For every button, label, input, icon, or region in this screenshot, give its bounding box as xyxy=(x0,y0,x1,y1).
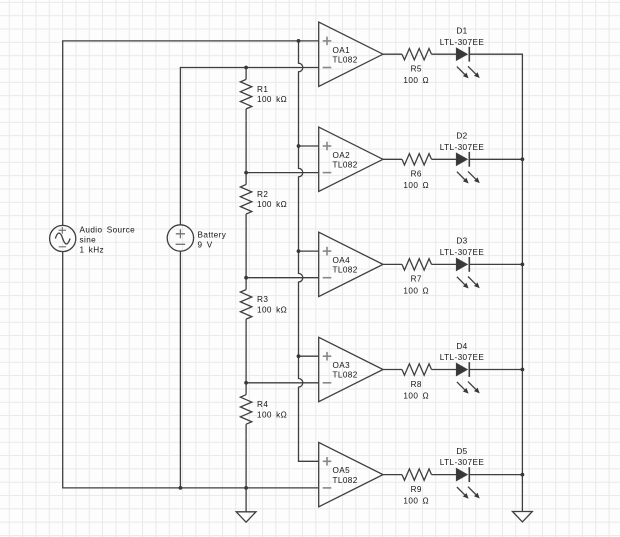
wire: R8 to D4 anode xyxy=(432,369,457,371)
wire: battery negative to ground return xyxy=(179,251,181,488)
svg-text:TL082: TL082 xyxy=(333,371,358,380)
wire: OA3 output xyxy=(383,369,402,371)
svg-text:LTL-307EE: LTL-307EE xyxy=(440,458,485,467)
svg-text:OA1: OA1 xyxy=(333,46,351,55)
svg-text:LTL-307EE: LTL-307EE xyxy=(440,143,485,152)
wire: ladder segment below R4 xyxy=(245,436,247,488)
svg-text:OA5: OA5 xyxy=(333,466,351,475)
resistor R4 (100 kΩ) xyxy=(240,383,287,436)
wire: OA3 noninverting input stub xyxy=(299,355,319,357)
svg-text:R3: R3 xyxy=(257,295,268,304)
svg-text:D1: D1 xyxy=(456,27,467,36)
svg-text:LTL-307EE: LTL-307EE xyxy=(440,248,485,257)
junction: ladder tap R1-R2 xyxy=(244,171,248,175)
wire: ladder tap to OA3 inverting input xyxy=(246,382,319,384)
junction: ground bus / D4 cathode xyxy=(521,368,525,372)
svg-text:TL082: TL082 xyxy=(333,161,358,170)
svg-text:OA3: OA3 xyxy=(333,361,351,370)
battery V2: 9 V xyxy=(167,225,227,251)
wire: OA1 output xyxy=(383,53,402,55)
svg-text:100 kΩ: 100 kΩ xyxy=(257,305,287,314)
svg-text:LTL-307EE: LTL-307EE xyxy=(440,353,485,362)
ground (LED return) xyxy=(513,512,533,522)
wire: audio source top to OA1 noninverting input xyxy=(63,41,319,226)
svg-text:1 kHz: 1 kHz xyxy=(80,246,105,255)
svg-text:100 kΩ: 100 kΩ xyxy=(257,200,287,209)
junction: ladder tap R2-R3 xyxy=(244,276,248,280)
wire: D4 cathode to ground bus xyxy=(469,369,522,371)
wire: signal bus to noninverting inputs xyxy=(299,41,319,461)
resistor R2 (100 kΩ) xyxy=(240,173,287,226)
svg-text:100 Ω: 100 Ω xyxy=(403,76,429,85)
svg-text:OA4: OA4 xyxy=(333,256,351,265)
op-amp OA5 (TL082) xyxy=(319,442,383,506)
wire: ladder tap to OA4 inverting input xyxy=(246,277,319,279)
svg-text:TL082: TL082 xyxy=(333,476,358,485)
junction: signal bus / OA4 noninverting input xyxy=(297,249,301,253)
svg-text:D4: D4 xyxy=(456,342,467,351)
wire: D1 cathode and LED ground bus xyxy=(469,54,522,511)
svg-text:100 Ω: 100 Ω xyxy=(403,286,429,295)
junction: ladder bottom / ground return xyxy=(244,486,248,490)
wire: OA4 noninverting input stub xyxy=(299,250,319,252)
wire: OA2 noninverting input stub xyxy=(299,145,319,147)
junction: battery negative / ground return xyxy=(179,486,183,490)
svg-text:Battery: Battery xyxy=(198,230,227,239)
svg-text:100 Ω: 100 Ω xyxy=(403,497,429,506)
junction: signal bus / OA3 noninverting input xyxy=(297,354,301,358)
svg-text:D2: D2 xyxy=(456,132,467,141)
svg-text:R1: R1 xyxy=(257,85,268,94)
op-amp OA2 (TL082) xyxy=(319,127,383,191)
svg-text:D3: D3 xyxy=(456,237,467,246)
svg-text:100 Ω: 100 Ω xyxy=(403,181,429,190)
svg-text:R2: R2 xyxy=(257,190,268,199)
svg-text:R8: R8 xyxy=(411,380,422,389)
wire: ladder segment below R1 xyxy=(245,121,247,173)
svg-text:D5: D5 xyxy=(456,447,467,456)
wire: OA2 output xyxy=(383,158,402,160)
resistor R1 (100 kΩ) xyxy=(240,68,287,121)
junction: ladder top tap xyxy=(244,66,248,70)
svg-text:TL082: TL082 xyxy=(333,266,358,275)
resistor R3 (100 kΩ) xyxy=(240,278,287,331)
LED D3 (LTL-307EE) xyxy=(440,237,485,289)
svg-text:sine: sine xyxy=(80,236,97,245)
wire: OA5 output xyxy=(383,474,402,476)
svg-text:R6: R6 xyxy=(411,170,422,179)
junction: signal bus / OA2 noninverting input xyxy=(297,144,301,148)
junction: ground bus / D2 cathode xyxy=(521,157,525,161)
wire: D2 cathode to ground bus xyxy=(469,158,522,160)
svg-text:TL082: TL082 xyxy=(333,55,358,64)
wire: D3 cathode to ground bus xyxy=(469,263,522,265)
svg-text:R7: R7 xyxy=(411,275,422,284)
junction: top wire / signal bus xyxy=(297,39,301,43)
resistor R8 (100 Ω) xyxy=(402,364,432,401)
wire: ladder tap to OA2 inverting input xyxy=(246,172,319,174)
svg-text:R4: R4 xyxy=(257,400,268,409)
svg-text:9 V: 9 V xyxy=(198,241,213,250)
svg-text:100 kΩ: 100 kΩ xyxy=(257,95,287,104)
wire: R9 to D5 anode xyxy=(432,474,457,476)
wire: D5 cathode to ground bus xyxy=(469,474,522,476)
LED D4 (LTL-307EE) xyxy=(440,342,485,394)
wire: R6 to D2 anode xyxy=(432,158,457,160)
resistor R7 (100 Ω) xyxy=(402,259,432,296)
junction: ground bus / D5 cathode xyxy=(521,473,525,477)
op-amp OA4 (TL082) xyxy=(319,232,383,296)
svg-text:100 Ω: 100 Ω xyxy=(403,391,429,400)
wire: R7 to D3 anode xyxy=(432,263,457,265)
wire: audio source bottom / ground return to OA5 inverting input xyxy=(63,252,319,488)
svg-text:Audio Source: Audio Source xyxy=(80,225,136,234)
resistor R9 (100 Ω) xyxy=(402,469,432,506)
wire: R5 to D1 anode xyxy=(432,53,457,55)
wire: OA4 output xyxy=(383,263,402,265)
wire: ladder segment below R2 xyxy=(245,226,247,278)
voltage source V1: Audio Source sine 1 kHz xyxy=(50,225,136,254)
junction: ground bus / D3 cathode xyxy=(521,263,525,267)
svg-text:R5: R5 xyxy=(411,65,422,74)
LED D2 (LTL-307EE) xyxy=(440,132,485,184)
junction: ladder tap R3-R4 xyxy=(244,381,248,385)
wire: ladder segment below R3 xyxy=(245,331,247,383)
svg-text:LTL-307EE: LTL-307EE xyxy=(440,38,485,47)
resistor R5 (100 Ω) xyxy=(402,49,432,86)
resistor R6 (100 Ω) xyxy=(402,154,432,191)
LED D1 (LTL-307EE) xyxy=(440,27,485,79)
wire: battery positive to ladder top and OA1 inverting input xyxy=(180,68,318,225)
svg-text:R9: R9 xyxy=(411,485,422,494)
op-amp OA3 (TL082) xyxy=(319,337,383,401)
svg-text:100 kΩ: 100 kΩ xyxy=(257,410,287,419)
op-amp OA1 (TL082) xyxy=(319,22,383,86)
svg-text:OA2: OA2 xyxy=(333,151,351,160)
LED D5 (LTL-307EE) xyxy=(440,447,485,499)
ground (divider / battery return) xyxy=(236,488,256,522)
